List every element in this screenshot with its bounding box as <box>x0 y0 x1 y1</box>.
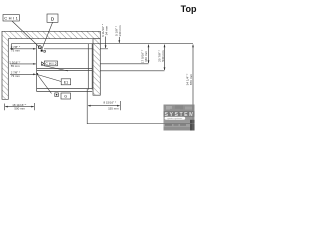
svg-text:870 mm: 870 mm <box>189 73 193 85</box>
svg-text:G: G <box>64 95 67 99</box>
svg-text:E1: E1 <box>64 81 68 85</box>
svg-text:CHI1: CHI1 <box>4 15 18 20</box>
svg-text:8 15/16" *: 8 15/16" * <box>103 100 116 104</box>
svg-text:Top: Top <box>181 4 197 14</box>
svg-text:55 mm: 55 mm <box>11 64 20 68</box>
svg-text:D: D <box>51 17 55 23</box>
svg-text:D: D <box>43 49 46 53</box>
svg-text:130 mm: 130 mm <box>118 25 122 37</box>
svg-text:530 mm: 530 mm <box>161 50 165 62</box>
svg-text:155 mm: 155 mm <box>108 106 119 110</box>
svg-text:440 mm: 440 mm <box>144 50 148 62</box>
svg-text:73 mm: 73 mm <box>11 74 20 78</box>
svg-text:73 mm: 73 mm <box>11 49 20 53</box>
svg-text:CHI2: CHI2 <box>45 62 56 66</box>
svg-text:gastro systems: gastro systems <box>168 117 184 120</box>
svg-text:94 mm: 94 mm <box>104 25 108 35</box>
svg-text:500 mm: 500 mm <box>14 107 25 111</box>
